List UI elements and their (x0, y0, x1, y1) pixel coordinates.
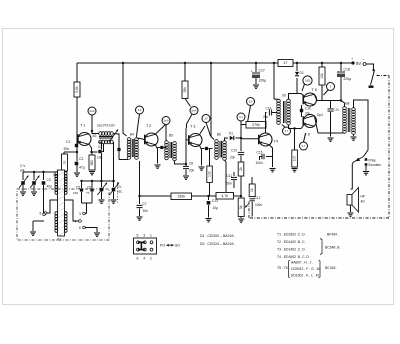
ground T3 emitter (199, 167, 205, 170)
svg-text:1k: 1k (250, 188, 254, 192)
svg-text:C16: C16 (305, 107, 311, 111)
resistor R1 5,6k (74, 82, 80, 97)
svg-text:C17: C17 (259, 69, 265, 73)
resistor R13 150k AGC (171, 193, 192, 200)
svg-text:10µ: 10µ (213, 206, 219, 210)
svg-text:40p: 40p (47, 185, 53, 189)
ground C8 (183, 176, 189, 179)
svg-text:C10: C10 (231, 149, 237, 153)
svg-text:D2 . CDG24 – BA216 .: D2 . CDG24 – BA216 . (200, 242, 235, 246)
junction detector (240, 137, 242, 139)
wire C3 pin (43, 213, 46, 216)
svg-text:0,4: 0,4 (138, 108, 142, 112)
B3 core (99, 136, 113, 138)
svg-text:D1 . CDG00 – BA216 .: D1 . CDG00 – BA216 . (200, 234, 235, 238)
variable capacitor CV osc 2 (113, 181, 115, 187)
pin 4 (79, 220, 82, 223)
wire bus to B4 primary (123, 63, 127, 136)
capacitor C12 100n (250, 199, 255, 201)
ground jack (365, 166, 367, 171)
power switch S2 (366, 64, 374, 69)
battery +9V terminal (351, 61, 354, 64)
wire antenna top rail (23, 171, 56, 173)
svg-text:2V: 2V (204, 117, 207, 121)
antenna coil B1 PO right (64, 172, 67, 195)
ground T2 emitter (155, 165, 161, 168)
test point T4 0,65V (247, 98, 255, 106)
svg-text:C18: C18 (344, 68, 350, 72)
wire CV osc top rail (82, 180, 116, 182)
test point B7 0,7V (283, 127, 291, 135)
svg-text:4,7k: 4,7k (221, 194, 228, 198)
resistor R3 emitter T1 (90, 151, 92, 153)
svg-text:20µ: 20µ (305, 112, 311, 116)
capacitor C1 20n (75, 144, 78, 147)
bracket T5 T6 left (289, 260, 291, 278)
ground CV osc 1 (99, 200, 105, 203)
wire detector to T4 base (241, 138, 259, 140)
svg-text:B4: B4 (130, 133, 134, 137)
wire bus corner to R1 (76, 63, 78, 82)
wire B3 secondary left (99, 142, 102, 150)
svg-text:+: + (251, 70, 253, 74)
svg-text:4: 4 (143, 257, 145, 261)
svg-text:5k: 5k (239, 205, 243, 209)
battery - terminal (363, 63, 366, 66)
wire C5-C6 join (82, 202, 93, 204)
svg-text:100n: 100n (255, 203, 262, 207)
svg-text:T4 . ED1602 .B .C .D .: T4 . ED1602 .B .C .D . (277, 255, 311, 259)
svg-text:C8: C8 (189, 162, 193, 166)
wire B5 secondary to T3 base (175, 161, 187, 165)
svg-text:6: 6 (79, 226, 81, 230)
wire B7 secondary to T5 base (289, 94, 304, 100)
resistor R6 bias T3 from bus (184, 63, 186, 81)
capacitor C16 20u between bases (301, 105, 303, 117)
svg-text:270k: 270k (252, 123, 260, 127)
svg-text:4Ω: 4Ω (361, 200, 366, 204)
svg-text:PO: PO (160, 244, 165, 248)
ground B8 secondary (353, 134, 355, 136)
B5 core (169, 142, 171, 158)
svg-text:0,1: 0,1 (239, 115, 243, 119)
junction AGC/C13 (207, 195, 209, 197)
ground C2 (74, 173, 80, 176)
svg-text:20n: 20n (263, 115, 269, 119)
B5 secondary winding (173, 142, 177, 161)
svg-text:B5: B5 (169, 134, 173, 138)
ground antenna (32, 221, 34, 231)
capacitor C2 47u (76, 152, 78, 161)
variable capacitor CV ant 2 (33, 171, 35, 173)
variable capacitor CV ant 1 (22, 172, 24, 180)
svg-text:C15: C15 (257, 151, 263, 155)
svg-text:T3 . ED1402 .C .D .: T3 . ED1402 .C .D . (277, 248, 307, 252)
ground C7 (137, 217, 143, 220)
junction bus/B7 (273, 62, 275, 64)
AGC wire from B4 (139, 161, 141, 196)
wire C4 to oscillator coil (102, 144, 104, 152)
junction bus/C17 (255, 62, 257, 64)
coil B3 secondary (99, 140, 114, 144)
B8 secondary winding (352, 108, 356, 135)
svg-text:47µ: 47µ (79, 166, 85, 170)
svg-text:0,6: 0,6 (249, 100, 253, 104)
svg-text:T1 . ED1502 .C .D .: T1 . ED1502 .C .D . (277, 233, 307, 237)
wire 270k to detector node (241, 125, 246, 139)
antenna coil B2 GO right (64, 212, 67, 233)
wire B3 to B4 top (113, 134, 119, 147)
capacitor C5 150p (81, 181, 83, 188)
B7 core (283, 101, 285, 123)
svg-text:Dp4: Dp4 (317, 113, 323, 117)
svg-text:C13: C13 (212, 199, 218, 203)
wire T6 collector to B8 (315, 117, 343, 134)
test point 1mA (88, 107, 96, 115)
svg-text:0,7: 0,7 (285, 129, 289, 133)
B3 trimmer arrow (109, 130, 118, 143)
coil B3 primary (99, 132, 114, 136)
svg-text:C3: C3 (47, 178, 51, 182)
svg-text:T4: T4 (274, 140, 278, 144)
capacitor C8 20n (185, 163, 187, 165)
wire T5 collector to B8 (315, 95, 342, 101)
junction bus/B6 (210, 62, 212, 64)
svg-text:T2 . ED1402 .B .C .: T2 . ED1402 .B .C . (277, 240, 306, 244)
test point T5 0,65V (303, 76, 312, 85)
svg-text:D1: D1 (229, 132, 233, 136)
capacitor C14 20n (269, 110, 271, 116)
B4 core (131, 139, 133, 157)
svg-text:T 5: T 5 (312, 88, 317, 92)
pin 6 (83, 226, 86, 229)
svg-text:C7: C7 (143, 202, 147, 206)
svg-text:B7: B7 (283, 94, 287, 98)
wire T1 collector to B3 (92, 131, 99, 134)
connector links (138, 242, 145, 249)
earphone jack fixed contacts (365, 158, 368, 161)
svg-text:2k: 2k (239, 167, 243, 171)
capacitor C3 40p (42, 171, 44, 173)
svg-text:3: 3 (79, 212, 81, 216)
svg-text:GO: GO (175, 244, 181, 248)
junction bus/B4 (122, 62, 124, 64)
svg-text:CD9012 . F . G . M .: CD9012 . F . G . M . (291, 267, 321, 271)
capacitor B4 primary bypass (118, 147, 120, 149)
wire T2 collector to test point (156, 125, 166, 135)
AGC wire mid (192, 195, 217, 197)
band switch S1 PO/GO (59, 177, 62, 180)
bracket T2-T4 (320, 239, 322, 255)
svg-text:2: 2 (150, 257, 152, 261)
svg-text:100n: 100n (256, 161, 263, 165)
svg-text:B6: B6 (217, 133, 221, 137)
capacitor C6 77p (91, 181, 93, 188)
transistor T3 (189, 134, 202, 147)
resistor R15 (238, 162, 244, 176)
junction bus/R bias T3 (184, 62, 186, 64)
pin 3 (83, 212, 86, 215)
wire T2 emitter (156, 145, 158, 164)
svg-text:560: 560 (90, 160, 94, 166)
svg-text:osc.PO-GO: osc.PO-GO (97, 124, 115, 128)
wire bias column to R19 (294, 129, 296, 151)
ground speaker (348, 213, 354, 216)
wire B6 secondary top to D1 (225, 138, 229, 141)
svg-text:C1: C1 (66, 140, 70, 144)
wire B7 secondary bottom to T6 base (289, 125, 304, 129)
svg-text:5: 5 (40, 212, 42, 216)
svg-text:1k: 1k (63, 160, 67, 164)
test point T5 collector (327, 83, 335, 91)
svg-text:BC318 .: BC318 . (325, 266, 337, 270)
ground pin 6 (94, 233, 100, 236)
svg-text:6: 6 (137, 257, 139, 261)
B6 primary winding (215, 140, 219, 160)
wire R6 to test point (185, 99, 191, 107)
capacitor T3 emitter bypass (205, 147, 208, 150)
resistor R19 (292, 150, 298, 167)
svg-text:220µ: 220µ (344, 77, 352, 81)
svg-text:C2: C2 (79, 157, 83, 161)
capacitor C7 20n (139, 196, 141, 204)
wire bus to B7 (273, 63, 275, 99)
antenna coil B1 PO left (55, 172, 58, 195)
resistor R18 270k (246, 122, 266, 129)
svg-text:150k: 150k (177, 194, 185, 198)
leader test point to T1 collector (91, 115, 93, 131)
svg-text:9V: 9V (356, 61, 361, 66)
wire to volume pot (234, 195, 242, 197)
ground C19 (328, 138, 334, 141)
junction bus/R12 (321, 62, 323, 64)
wire +9V supply bus (77, 62, 278, 64)
transistor T1 (78, 133, 91, 146)
svg-text:20n: 20n (230, 156, 236, 160)
svg-text:20n: 20n (64, 147, 70, 151)
test point T3 collector (202, 115, 210, 123)
wire rod top to CV rail (55, 171, 58, 173)
wire bus to B6 primary (211, 63, 214, 140)
svg-text:C16: C16 (334, 108, 340, 112)
ground C13 (206, 219, 212, 222)
capacitor C17 100u (255, 63, 257, 72)
resistor R17 to C12 (251, 177, 253, 184)
svg-text:100µ: 100µ (259, 79, 267, 83)
svg-text:10k: 10k (208, 171, 212, 177)
B6 secondary winding (223, 141, 227, 161)
B4 secondary winding (135, 138, 139, 160)
svg-text:12k: 12k (320, 73, 324, 79)
test point T6 0,7V (300, 142, 308, 150)
B4 primary winding (127, 138, 131, 160)
leader test point T5 collector (324, 90, 329, 96)
wire jack to speaker (351, 162, 354, 189)
wire T3 collector to test point (200, 126, 206, 135)
svg-text:C12: C12 (255, 196, 261, 200)
capacitor C18 220u (340, 63, 342, 71)
band switch connector table (134, 238, 157, 254)
AGC wire (140, 195, 172, 197)
ferrite rod antenna (58, 170, 65, 236)
transistor T6 (304, 115, 317, 128)
svg-text:B8: B8 (346, 102, 350, 106)
svg-text:0,7: 0,7 (302, 144, 306, 148)
wire test point to B5 (165, 125, 167, 141)
svg-text:T 1: T 1 (80, 124, 85, 128)
leader test point detector (240, 121, 242, 126)
wire base stub T3 (186, 139, 189, 141)
svg-text:5: 5 (137, 234, 139, 238)
B8 core (347, 108, 349, 132)
wire T4 collector (266, 113, 267, 134)
svg-text:5mA: 5mA (191, 109, 197, 113)
wire B6 secondary to volume chain (225, 160, 227, 192)
svg-text:AAB07 . H . J .: AAB07 . H . J . (291, 261, 313, 265)
leader test point to T3 base (187, 114, 193, 128)
leader to B6 primary (206, 123, 211, 137)
wire T4 emitter (270, 145, 273, 167)
svg-text:39k: 39k (183, 87, 187, 93)
wire emitter to C4 (89, 145, 91, 153)
diode D2 bias (296, 63, 298, 71)
page frame (3, 29, 394, 305)
B8 primary winding (341, 101, 345, 108)
svg-text:20n: 20n (189, 169, 195, 173)
wire T1 base column down (76, 140, 78, 152)
svg-text:C14: C14 (266, 107, 272, 111)
ground R3 (89, 172, 95, 175)
svg-text:C.V: C.V (20, 164, 26, 168)
svg-text:1: 1 (150, 234, 152, 238)
wire B8 primary bottom (342, 132, 345, 134)
antenna coil B2 GO left (55, 212, 58, 233)
svg-text:50n: 50n (227, 182, 233, 186)
mechanical link switch-potentiometer (dash-dot) (377, 75, 390, 77)
svg-text:T 3: T 3 (190, 125, 195, 129)
svg-text:–: – (363, 58, 365, 62)
B5 primary winding (165, 141, 169, 160)
ground R19 (292, 169, 298, 172)
leader to B4 secondary (137, 114, 140, 137)
svg-text:ED1602 . K . L . M .: ED1602 . K . L . M . (291, 274, 321, 278)
ground CV ant 1 (20, 192, 26, 195)
svg-text:100: 100 (293, 156, 297, 162)
wire R2 to band switch (63, 171, 65, 176)
wire B3 secondary right down (112, 142, 115, 181)
leader test point B7 (282, 125, 285, 128)
resistor R feed column from B6 node (209, 149, 211, 166)
resistor R2 (63, 152, 65, 154)
tuning gang boundary (dash-dot box) (17, 189, 109, 240)
wire R20 to T5 collector (321, 85, 323, 101)
ground T4 emitter (270, 169, 276, 172)
test point T2 collector 2mA (162, 117, 170, 125)
svg-text:0,65: 0,65 (305, 79, 311, 83)
svg-text:T5 , T6 .: T5 , T6 . (277, 266, 290, 270)
ground potentiometer (238, 219, 244, 222)
B6 core (219, 141, 221, 158)
capacitor C15 100n (266, 156, 273, 158)
variable capacitor CV osc 1 (101, 181, 103, 187)
volume potentiometer P1 5k (238, 198, 244, 217)
antenna tap wires left (47, 200, 58, 213)
capacitor C10 20n (240, 138, 242, 151)
svg-text:BC548 .B .: BC548 .B . (325, 246, 341, 250)
svg-text:1mA: 1mA (89, 109, 95, 113)
svg-text:20n: 20n (143, 209, 149, 213)
svg-text:47: 47 (284, 61, 288, 65)
capacitor C13 10u (208, 196, 210, 200)
ground CV ant 2 (31, 192, 37, 195)
antenna tap wires right (65, 200, 74, 207)
svg-text:T 2: T 2 (146, 124, 151, 128)
wire C4 down to CV osc (101, 153, 103, 181)
junction T1 base/C2 (76, 151, 78, 153)
svg-text:C11: C11 (227, 174, 233, 178)
wire B8 secondary to jack (354, 100, 369, 157)
capacitor T2 emitter bypass (160, 146, 163, 149)
svg-text:77: 77 (86, 191, 90, 195)
svg-text:B3: B3 (93, 134, 97, 138)
leader test point T6 (304, 134, 306, 143)
earphone jack switch contact (354, 157, 364, 163)
svg-text:Prise: Prise (369, 159, 376, 163)
svg-text:BF494 .: BF494 . (327, 233, 339, 237)
svg-text:3: 3 (143, 234, 145, 238)
svg-text:B1: B1 (57, 238, 61, 242)
test point detector 0,1V (237, 113, 245, 121)
transistor T2 (145, 133, 158, 146)
loudspeaker HP (347, 195, 352, 206)
junction bus/D2 (296, 62, 298, 64)
capacitor C19 across output (330, 101, 332, 109)
B7 primary winding (274, 98, 279, 101)
wire B4 secondary to T2 base (137, 138, 145, 140)
wire T3 emitter (200, 146, 202, 166)
test point T3 5mA (190, 107, 198, 115)
svg-text:150: 150 (73, 191, 78, 195)
leader test point T4 (248, 106, 251, 123)
svg-text:2mA: 2mA (163, 119, 169, 123)
ground CV osc 2 (111, 200, 117, 203)
svg-text:D2: D2 (300, 71, 304, 75)
svg-text:5,6k: 5,6k (75, 86, 79, 93)
ground C17 (253, 85, 259, 88)
transistor T4 (259, 133, 272, 146)
svg-text:Écouteur: Écouteur (369, 162, 383, 167)
B7 secondary winding (287, 99, 291, 125)
test point T2 base (136, 106, 144, 114)
resistor R16 47 ohm (278, 60, 293, 67)
transistor T5 (304, 93, 317, 106)
capacitor C11 50n (233, 172, 235, 176)
resistor R20 12k (321, 63, 323, 67)
resistor R14 4,7k (216, 193, 234, 200)
wire speaker to ground (350, 205, 352, 212)
wire to R2 (64, 151, 77, 153)
capacitor C4 10n (98, 150, 101, 153)
bracket T5 T6 right (319, 260, 321, 278)
svg-text:osc.: osc. (117, 190, 123, 194)
junction bus/C18 (340, 62, 342, 64)
leader test point T5 base (302, 84, 305, 91)
wire base bias column T3 (185, 128, 187, 164)
wire R1 to T1 base (76, 97, 78, 140)
gang link dotted line (117, 182, 119, 204)
svg-text:HP: HP (361, 195, 365, 199)
